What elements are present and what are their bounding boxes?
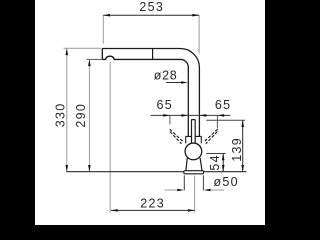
base cup right xyxy=(200,158,202,171)
base cup left xyxy=(186,158,187,171)
svg-text:139: 139 xyxy=(230,137,244,162)
svg-text:253: 253 xyxy=(139,0,164,14)
dimension line 330 xyxy=(66,48,68,171)
leader arrow d50 right xyxy=(210,189,224,191)
tick right 65 xyxy=(216,115,218,128)
extension line outlet axis (223 left) xyxy=(109,62,111,213)
leader arrow d28 xyxy=(166,82,182,84)
extension line 330 top xyxy=(64,47,102,49)
arrow 253 right xyxy=(192,14,199,17)
dimension line 253 xyxy=(103,14,199,16)
extension line 290 top xyxy=(87,58,102,60)
arrow 290 bottom xyxy=(88,165,91,172)
arrow 65 at pipe right xyxy=(200,114,207,117)
svg-text:ø28: ø28 xyxy=(154,68,178,82)
arrow 330 top xyxy=(66,48,69,55)
extension line 54 top xyxy=(206,153,225,155)
white drawing panel xyxy=(35,0,265,225)
tick left 65 xyxy=(169,115,171,124)
dimension line 139 xyxy=(242,120,244,171)
spout outline xyxy=(102,48,199,136)
arrow 65 at pipe left xyxy=(182,114,189,117)
arrow 223 left xyxy=(111,209,118,212)
arrow 65 at right tick xyxy=(218,114,225,117)
svg-text:54: 54 xyxy=(208,154,222,171)
svg-text:223: 223 xyxy=(140,196,165,210)
extension line faucet axis (223 right) xyxy=(194,176,196,213)
arrow 253 left xyxy=(103,14,110,17)
arrow 290 top xyxy=(88,59,91,66)
arrow 223 right xyxy=(188,209,195,212)
spray head junction line xyxy=(152,49,154,60)
mixer ball xyxy=(185,143,202,160)
lever dashed position left xyxy=(170,129,183,144)
cartridge collar shoulders xyxy=(186,135,202,137)
extension line 139 top xyxy=(206,119,245,121)
extension line 253 right xyxy=(198,15,200,53)
lever bar xyxy=(192,120,196,145)
dimension line 65-65 xyxy=(151,114,231,116)
svg-text:65: 65 xyxy=(215,98,232,112)
aerator dome xyxy=(105,56,114,59)
arrow 330 bottom xyxy=(66,165,69,172)
lever dashed position right xyxy=(204,129,217,144)
leader arrow d50 left xyxy=(165,189,179,191)
shank ext line right (d50) xyxy=(202,175,204,190)
arrow 139 bottom xyxy=(241,165,244,172)
dimension line 290 xyxy=(88,59,90,171)
svg-text:65: 65 xyxy=(156,98,173,112)
shank ext line left (d50) xyxy=(183,175,185,190)
arrow 65 at left tick xyxy=(163,114,170,117)
dimension line 223 xyxy=(111,209,195,211)
arrow 54 bottom xyxy=(222,165,225,172)
svg-text:330: 330 xyxy=(54,103,68,128)
cartridge collar sides xyxy=(186,136,202,143)
base flange xyxy=(184,171,204,174)
extension line 253 left xyxy=(102,15,104,44)
counter line xyxy=(66,171,246,173)
svg-text:290: 290 xyxy=(74,103,88,128)
svg-text:ø50: ø50 xyxy=(214,175,239,189)
dimension line 54 xyxy=(222,154,224,172)
arrow 139 top xyxy=(241,120,244,127)
arrow 54 top xyxy=(222,154,225,161)
